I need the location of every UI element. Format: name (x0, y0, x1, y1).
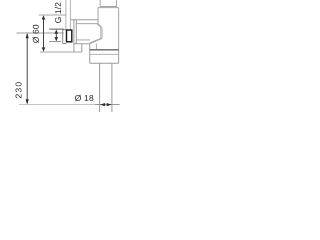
wire: bottom extension line / Ø18 dimension line (19, 104, 95, 106)
wire: G1/2 extension lines (49, 28, 63, 30)
wire: 230 top extension line (17, 32, 64, 34)
wire: collar ring lower (90, 53, 119, 55)
node B: 230 label (16, 82, 22, 98)
wire: outlet pipe (100, 63, 112, 112)
wire: Ø60 dimension line with arrows (42, 15, 46, 51)
wire: push-button housing (70, 20, 98, 52)
wire: collar ring thick (90, 49, 119, 51)
wire: G1/2 inlet stub (100, 0, 117, 7)
node E: Ø18 label (75, 95, 93, 101)
wire: internal elbow curve (90, 24, 102, 44)
wire: housing inner bore lines (76, 24, 98, 40)
wire: Ø60 extension lines (39, 14, 66, 16)
node A: button thread ring (dark) (67, 30, 72, 42)
wire: valve main body tube (98, 8, 119, 50)
wire: Ø18 dimension arrows (95, 103, 120, 106)
wire: G1/2 dimension line with arrows (55, 30, 59, 42)
wire: extension lines above button (66, 0, 71, 30)
wire: 230 dimension line with arrows (26, 33, 29, 105)
wire: short transition line (95, 44, 97, 50)
node D: G 1/2 label (55, 3, 61, 23)
wire: lower body box (90, 44, 119, 64)
wire: button cap (63, 30, 67, 44)
node C: Ø60 label (33, 25, 39, 43)
